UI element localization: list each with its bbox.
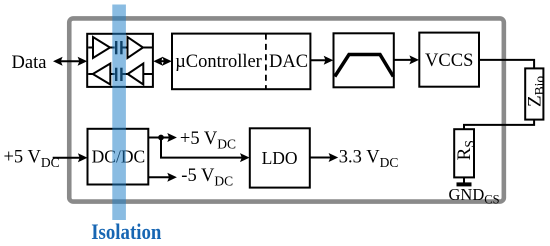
svg-text:LDO: LDO: [262, 148, 298, 168]
svg-text:Data: Data: [12, 53, 47, 73]
svg-text:+5 VDC: +5 VDC: [180, 129, 236, 152]
svg-text:3.3 VDC: 3.3 VDC: [339, 147, 399, 170]
svg-text:µController: µController: [175, 52, 262, 72]
svg-text:VCCS: VCCS: [425, 51, 473, 71]
svg-text:-5 VDC: -5 VDC: [181, 166, 233, 189]
svg-text:DAC: DAC: [269, 52, 308, 72]
svg-text:+5 VDC: +5 VDC: [4, 148, 60, 171]
svg-text:Isolation: Isolation: [91, 219, 162, 241]
svg-text:GNDCS: GNDCS: [449, 185, 500, 207]
